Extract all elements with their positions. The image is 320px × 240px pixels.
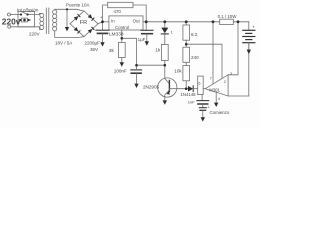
svg-text:Control: Control xyxy=(115,25,129,30)
svg-text:470: 470 xyxy=(114,9,122,14)
svg-text:2N2905: 2N2905 xyxy=(143,85,160,90)
svg-text:0.1 / 10W: 0.1 / 10W xyxy=(218,14,238,19)
svg-text:3k: 3k xyxy=(109,48,115,54)
svg-text:LM338: LM338 xyxy=(109,32,124,38)
svg-text:240: 240 xyxy=(191,55,199,60)
svg-text:18V / 5A: 18V / 5A xyxy=(55,41,72,46)
svg-text:1: 1 xyxy=(171,30,173,34)
svg-text:1nF: 1nF xyxy=(188,100,195,105)
svg-text:In: In xyxy=(111,19,115,24)
svg-text:Comienzo: Comienzo xyxy=(210,110,230,115)
svg-text:Puente 10A: Puente 10A xyxy=(66,2,90,7)
svg-text:220v: 220v xyxy=(2,16,21,26)
svg-text:2200µF: 2200µF xyxy=(85,41,101,46)
svg-text:1k: 1k xyxy=(155,48,161,54)
svg-text:4: 4 xyxy=(218,97,220,101)
svg-text:Int c/fusión: Int c/fusión xyxy=(17,7,39,12)
svg-text:1µF: 1µF xyxy=(138,37,146,42)
svg-text:6: 6 xyxy=(198,82,200,86)
svg-text:10k: 10k xyxy=(174,69,182,74)
svg-text:8.2: 8.2 xyxy=(191,32,198,37)
svg-text:1N4148: 1N4148 xyxy=(181,92,197,97)
svg-text:+: + xyxy=(252,24,255,29)
svg-text:100nF: 100nF xyxy=(114,68,127,73)
svg-text:+: + xyxy=(100,15,103,20)
svg-text:3: 3 xyxy=(230,72,232,76)
svg-text:220V: 220V xyxy=(29,32,40,37)
svg-text:Out: Out xyxy=(133,18,141,23)
svg-text:M301: M301 xyxy=(209,88,220,93)
svg-text:FR: FR xyxy=(80,20,87,26)
svg-text:2: 2 xyxy=(224,80,226,84)
svg-text:36V: 36V xyxy=(90,47,98,52)
svg-text:7: 7 xyxy=(210,77,212,81)
